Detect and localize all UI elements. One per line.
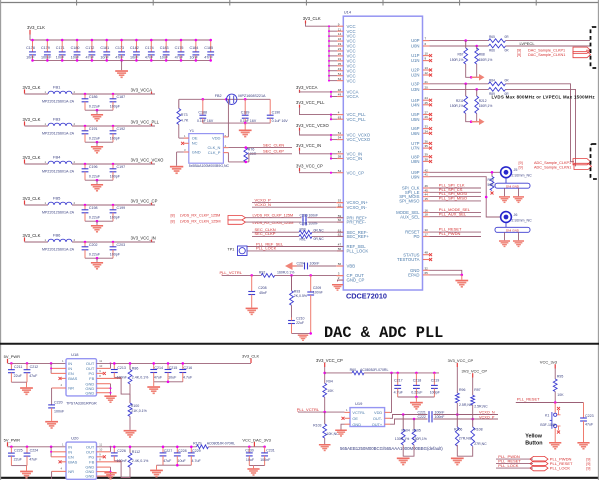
wire bbox=[157, 464, 192, 466]
capacitor C210 22uF bbox=[288, 317, 304, 334]
ground bbox=[26, 382, 28, 387]
pin STATUS 48 bbox=[403, 251, 432, 258]
resistor R129 AC0805JR-070RL bbox=[193, 442, 235, 449]
offpage connector bbox=[573, 47, 591, 53]
svg-text:[9]: [9] bbox=[586, 467, 590, 471]
svg-text:SEC_CLKP: SEC_CLKP bbox=[255, 231, 276, 236]
pin VCC 43 bbox=[328, 67, 356, 74]
wire output rail bbox=[97, 362, 252, 364]
resistor R95 10K bbox=[553, 375, 564, 398]
svg-text:BIAS: BIAS bbox=[68, 376, 77, 381]
wire bbox=[466, 64, 477, 77]
wire bbox=[341, 424, 345, 429]
capacitor C211 22uF bbox=[8, 363, 23, 382]
wire bbox=[456, 367, 458, 393]
svg-text:U3P: U3P bbox=[411, 81, 419, 86]
capacitor C227 47uF bbox=[160, 446, 173, 466]
wire bbox=[25, 163, 49, 165]
capacitor C196 0.22uF bbox=[82, 164, 101, 180]
svg-text:C182: C182 bbox=[130, 46, 139, 50]
capacitor C175 47nF bbox=[175, 39, 185, 62]
wire bbox=[430, 216, 482, 218]
svg-text:R68: R68 bbox=[479, 52, 485, 56]
resistor R66 0R bbox=[489, 44, 510, 52]
pin U8N 38 bbox=[411, 157, 432, 164]
svg-text:C175: C175 bbox=[175, 46, 184, 50]
svg-text:64: 64 bbox=[338, 77, 342, 81]
svg-text:FB3: FB3 bbox=[53, 117, 61, 122]
svg-text:VCXO_N: VCXO_N bbox=[479, 411, 495, 415]
capacitor C174 47nF bbox=[145, 39, 155, 62]
pin VCC 11 bbox=[328, 27, 356, 34]
svg-text:100pF: 100pF bbox=[110, 215, 121, 219]
pin PG bbox=[97, 372, 104, 374]
svg-text:36: 36 bbox=[425, 139, 429, 143]
svg-text:PLL_LOCK: PLL_LOCK bbox=[498, 463, 519, 468]
wire bbox=[179, 98, 270, 100]
svg-text:100pF: 100pF bbox=[430, 391, 441, 395]
connector J2 (DAC clock) bbox=[591, 27, 599, 68]
ground bbox=[121, 60, 123, 70]
svg-text:ADC_Sample_CLKN1: ADC_Sample_CLKN1 bbox=[534, 166, 571, 170]
capacitor C197 100pF bbox=[110, 164, 125, 180]
capacitor C192 100pF bbox=[110, 126, 125, 142]
wire bbox=[129, 416, 131, 430]
svg-text:C211: C211 bbox=[14, 365, 22, 369]
svg-text:54: 54 bbox=[338, 169, 342, 173]
pin VCC 14 bbox=[328, 32, 356, 39]
svg-text:0.22uF: 0.22uF bbox=[89, 215, 101, 219]
svg-text:100nF: 100nF bbox=[54, 409, 65, 413]
svg-text:R65: R65 bbox=[489, 35, 495, 39]
svg-text:21K,0.1%: 21K,0.1% bbox=[131, 409, 147, 413]
svg-text:4.7K: 4.7K bbox=[181, 119, 189, 123]
svg-text:R60: R60 bbox=[350, 368, 356, 372]
svg-text:47nF: 47nF bbox=[115, 56, 124, 60]
wire bbox=[300, 131, 332, 140]
svg-text:3V3_CLK: 3V3_CLK bbox=[23, 196, 41, 201]
pin PRI_REF+ 59 bbox=[337, 214, 368, 221]
svg-text:10uF: 10uF bbox=[246, 458, 255, 462]
resistor R94 10K bbox=[323, 379, 334, 397]
pin U9N 41 bbox=[411, 173, 430, 180]
svg-text:[8]: [8] bbox=[171, 214, 175, 218]
wire bbox=[312, 231, 343, 233]
svg-text:EPAD: EPAD bbox=[408, 273, 419, 278]
wire bbox=[430, 187, 482, 189]
svg-text:J6: J6 bbox=[514, 213, 518, 217]
svg-text:160R,0.1%: 160R,0.1% bbox=[277, 270, 294, 274]
svg-text:[9]: [9] bbox=[517, 53, 521, 57]
resistor R76 100R bbox=[244, 146, 257, 163]
svg-text:C203: C203 bbox=[117, 243, 126, 247]
wire bbox=[496, 467, 533, 469]
wire bbox=[325, 372, 352, 374]
svg-text:47nF: 47nF bbox=[86, 56, 95, 60]
resistor R103 10K,NC bbox=[313, 412, 339, 438]
svg-text:GND: GND bbox=[85, 390, 94, 395]
pin VCC 54 bbox=[328, 72, 356, 79]
svg-text:TPS7A3301RPGR: TPS7A3301RPGR bbox=[66, 402, 97, 406]
wire bbox=[300, 108, 332, 119]
resistor R67 150R,1% bbox=[450, 41, 468, 64]
svg-text:U18: U18 bbox=[71, 352, 79, 357]
svg-text:C229: C229 bbox=[192, 449, 201, 453]
svg-text:10K: 10K bbox=[557, 393, 564, 397]
ground bbox=[549, 442, 561, 450]
pin U1N 9 bbox=[411, 57, 432, 64]
svg-text:FB: FB bbox=[89, 376, 94, 381]
svg-text:130R,1%: 130R,1% bbox=[413, 437, 427, 441]
wire bbox=[312, 235, 343, 237]
sheet border right bbox=[597, 0, 599, 480]
wire bbox=[114, 376, 121, 378]
svg-text:VCCA: VCCA bbox=[347, 94, 359, 99]
oscillator Y1 5x5BAA100M000B9G bbox=[181, 129, 229, 168]
svg-text:GND: GND bbox=[85, 474, 94, 479]
wire bbox=[97, 466, 111, 468]
svg-text:R67: R67 bbox=[457, 52, 463, 56]
svg-text:OUT-: OUT- bbox=[373, 416, 383, 421]
wire bbox=[85, 257, 113, 259]
ground bbox=[415, 397, 417, 402]
capacitor C200 100nF bbox=[300, 213, 319, 221]
ground bbox=[577, 442, 589, 450]
svg-text:C171: C171 bbox=[56, 46, 65, 50]
resistor R65 0R bbox=[489, 35, 510, 42]
ground bbox=[518, 188, 520, 196]
svg-text:3V3_VCC_PLL: 3V3_VCC_PLL bbox=[296, 100, 325, 105]
wire bbox=[72, 125, 155, 127]
svg-text:23: 23 bbox=[338, 47, 342, 51]
pin U0N 6 bbox=[411, 42, 430, 49]
svg-text:R108: R108 bbox=[474, 427, 482, 431]
svg-text:R92: R92 bbox=[259, 270, 265, 274]
wire bbox=[324, 438, 326, 444]
svg-text:32: 32 bbox=[425, 266, 429, 270]
svg-text:42: 42 bbox=[425, 168, 429, 172]
svg-text:130R,1%: 130R,1% bbox=[395, 437, 409, 441]
svg-text:49: 49 bbox=[338, 93, 342, 97]
ground bbox=[319, 444, 331, 451]
wire bbox=[430, 196, 482, 198]
wire U9N to J6 bbox=[430, 177, 501, 217]
svg-text:C191: C191 bbox=[89, 127, 98, 131]
ground bbox=[518, 232, 520, 240]
ground bbox=[45, 421, 58, 429]
svg-text:C188: C188 bbox=[198, 111, 207, 115]
svg-text:10nF: 10nF bbox=[71, 56, 80, 60]
svg-text:100nF: 100nF bbox=[313, 291, 323, 295]
svg-text:LVDS_RX_CLKP_125M: LVDS_RX_CLKP_125M bbox=[180, 214, 221, 218]
svg-text:U20: U20 bbox=[71, 436, 79, 441]
capacitor C173 47nF bbox=[115, 39, 125, 62]
svg-text:GND: GND bbox=[352, 422, 361, 427]
ferrite bead FB2 MPZ1608S221A bbox=[215, 94, 266, 105]
capacitor C202 0.22uF bbox=[82, 242, 101, 258]
svg-text:14: 14 bbox=[338, 32, 342, 36]
svg-text:FB1: FB1 bbox=[53, 85, 61, 90]
svg-text:C185: C185 bbox=[204, 46, 213, 50]
pin U4N 25 bbox=[411, 101, 432, 108]
svg-text:PLL_LOCK: PLL_LOCK bbox=[256, 246, 277, 251]
svg-text:60: 60 bbox=[338, 218, 342, 222]
svg-text:C220: C220 bbox=[54, 400, 63, 404]
svg-text:FB6: FB6 bbox=[53, 233, 61, 238]
wire bbox=[300, 92, 332, 97]
svg-text:VCXO_P: VCXO_P bbox=[479, 415, 495, 419]
svg-text:C190: C190 bbox=[272, 111, 281, 115]
ferrite bead FB3 MPZ2012S601A-2A bbox=[42, 117, 76, 136]
wire bbox=[554, 369, 556, 380]
svg-text:0R: 0R bbox=[505, 48, 510, 52]
svg-text:NR: NR bbox=[68, 469, 74, 474]
svg-text:R66: R66 bbox=[489, 48, 495, 52]
wire bbox=[472, 405, 474, 419]
pin U3N 20 bbox=[411, 85, 430, 92]
pin AUX_SEL 18 bbox=[400, 213, 429, 220]
wire bbox=[72, 93, 155, 95]
svg-text:100nF: 100nF bbox=[435, 410, 445, 414]
pin 57 bbox=[330, 150, 343, 155]
pin BIAS NC bbox=[61, 377, 66, 379]
ground bbox=[96, 180, 98, 184]
svg-text:10nF: 10nF bbox=[130, 56, 139, 60]
svg-text:AC0805JR-070RL: AC0805JR-070RL bbox=[360, 368, 388, 372]
svg-text:PLL_PWDN: PLL_PWDN bbox=[439, 231, 461, 236]
svg-text:C230: C230 bbox=[245, 448, 254, 452]
svg-text:150R,1%: 150R,1% bbox=[450, 104, 464, 108]
wire bbox=[227, 99, 229, 137]
wire bbox=[472, 378, 474, 396]
wire bbox=[227, 153, 229, 162]
svg-text:30: 30 bbox=[425, 228, 429, 232]
resistor R112 2.4K,0.1% bbox=[128, 446, 149, 468]
svg-text:U9N: U9N bbox=[411, 174, 420, 179]
svg-text:C222: C222 bbox=[418, 415, 426, 419]
VCXO U19 565AEB1250M00BCG bbox=[342, 401, 391, 427]
pin VCC 35 bbox=[328, 62, 356, 69]
svg-text:10uF: 10uF bbox=[168, 375, 177, 379]
ground bbox=[124, 430, 137, 438]
wire bbox=[25, 241, 49, 243]
svg-text:47uF: 47uF bbox=[29, 458, 38, 462]
svg-text:27R,NC: 27R,NC bbox=[474, 442, 487, 446]
ground bbox=[156, 465, 158, 469]
svg-text:R79: R79 bbox=[488, 178, 494, 182]
svg-text:[9]: [9] bbox=[517, 48, 521, 52]
pin U7N 35 bbox=[411, 144, 432, 151]
offpage connector bbox=[530, 461, 548, 466]
svg-text:VCC: VCC bbox=[347, 78, 356, 83]
wire bbox=[300, 151, 332, 159]
capacitor C183 10nF bbox=[160, 39, 170, 62]
connector J5 2.92mm_NC bbox=[501, 167, 532, 183]
svg-text:VCC_IN: VCC_IN bbox=[347, 156, 363, 161]
wire bbox=[300, 171, 332, 173]
capacitor C220 100nF bbox=[48, 388, 65, 421]
pin U9P 42 bbox=[411, 168, 429, 175]
svg-text:48: 48 bbox=[338, 88, 342, 92]
svg-text:MPZ2012S601A-2A: MPZ2012S601A-2A bbox=[42, 170, 75, 174]
pin U4P 24 bbox=[411, 96, 432, 103]
wire bbox=[228, 147, 249, 149]
svg-text:3V3_VCCA: 3V3_VCCA bbox=[296, 85, 318, 90]
resistor R92 160R,0.1% bbox=[259, 270, 294, 277]
svg-text:C219: C219 bbox=[431, 379, 440, 383]
wire bbox=[309, 265, 336, 267]
svg-text:Button: Button bbox=[525, 440, 542, 446]
svg-text:3V3_VCC_VCXO: 3V3_VCC_VCXO bbox=[296, 123, 330, 128]
svg-text:J5: J5 bbox=[514, 168, 518, 172]
wire bbox=[246, 217, 302, 219]
svg-text:C213: C213 bbox=[117, 366, 126, 370]
svg-text:10nF: 10nF bbox=[26, 56, 35, 60]
svg-text:39: 39 bbox=[425, 153, 429, 157]
svg-text:PLL_SPI_MISO: PLL_SPI_MISO bbox=[439, 196, 467, 201]
pin 54 bbox=[330, 169, 343, 174]
pin SPI_MOIS 44 bbox=[399, 193, 429, 200]
pin SPI_MISO 15 bbox=[399, 197, 429, 204]
wire bbox=[121, 377, 130, 394]
wire bbox=[364, 372, 439, 374]
capacitor C221 100nF bbox=[418, 410, 445, 418]
svg-text:FB2: FB2 bbox=[215, 94, 222, 98]
svg-text:48: 48 bbox=[425, 251, 429, 255]
svg-text:10: 10 bbox=[99, 448, 102, 452]
resistor R60 AC0805JR-070RL bbox=[352, 371, 364, 375]
wire bbox=[398, 396, 435, 398]
svg-text:U14: U14 bbox=[344, 10, 352, 15]
svg-text:TP1: TP1 bbox=[227, 247, 234, 251]
svg-text:47: 47 bbox=[338, 243, 342, 247]
wire bbox=[292, 332, 311, 334]
capacitor C209 100nF bbox=[307, 275, 323, 333]
svg-text:U4N: U4N bbox=[411, 102, 420, 107]
svg-text:PLL_RESET: PLL_RESET bbox=[517, 396, 540, 401]
svg-text:3V3_CLK: 3V3_CLK bbox=[23, 233, 41, 238]
resistor R84 0R bbox=[489, 78, 510, 85]
resistor R105 130R,1% bbox=[412, 419, 427, 445]
svg-text:R90: R90 bbox=[300, 228, 306, 232]
resistor R79 50R,NC bbox=[488, 171, 500, 195]
wire bbox=[121, 461, 130, 478]
svg-text:0.1uF 16V: 0.1uF 16V bbox=[197, 119, 214, 123]
DNI note box bbox=[495, 183, 530, 188]
pin U5N 26 bbox=[411, 115, 432, 122]
svg-text:R212: R212 bbox=[479, 99, 487, 103]
svg-text:C214: C214 bbox=[154, 366, 163, 370]
svg-text:4.7uF: 4.7uF bbox=[394, 391, 404, 395]
svg-text:DAC & ADC PLL: DAC & ADC PLL bbox=[324, 324, 443, 342]
pin REF_SEL 47 bbox=[337, 243, 366, 250]
svg-text:VDD: VDD bbox=[374, 410, 382, 415]
svg-text:24: 24 bbox=[425, 96, 429, 100]
capacitor C191 0.22uF bbox=[82, 126, 101, 142]
svg-text:GND_CP: GND_CP bbox=[347, 278, 365, 283]
pushbutton K1 B3F-1042 bbox=[540, 403, 560, 443]
capacitor C198 0.22uF bbox=[82, 205, 101, 221]
ground bbox=[335, 430, 347, 437]
capacitor C201 100nF bbox=[300, 219, 319, 226]
svg-text:0R: 0R bbox=[505, 78, 510, 82]
power arrow VBB bbox=[471, 76, 479, 78]
svg-text:47uF: 47uF bbox=[585, 423, 594, 427]
wire bbox=[33, 59, 211, 61]
svg-text:FB5: FB5 bbox=[53, 196, 61, 201]
svg-text:R100: R100 bbox=[131, 404, 140, 408]
svg-text:R106: R106 bbox=[454, 427, 462, 431]
ferrite bead FB6 MPZ2012S601A-2A bbox=[42, 233, 76, 252]
capacitor C222 100nF bbox=[418, 415, 445, 423]
pin 58 bbox=[330, 155, 343, 160]
capacitor C188 0.1uF 16V bbox=[197, 99, 214, 123]
resistor R104 130R,1% bbox=[395, 415, 410, 445]
resistor R97 2.5R,NC bbox=[471, 388, 488, 409]
svg-text:20: 20 bbox=[425, 85, 429, 89]
sheet border left bbox=[0, 0, 2, 480]
svg-text:16: 16 bbox=[338, 37, 342, 41]
svg-text:3V3_CLK: 3V3_CLK bbox=[242, 354, 259, 359]
svg-text:25: 25 bbox=[425, 101, 429, 105]
capacitor C223 47uF bbox=[580, 403, 594, 443]
svg-text:57: 57 bbox=[338, 150, 342, 154]
wire bbox=[252, 202, 336, 204]
wire bbox=[25, 93, 49, 95]
svg-text:PLL_LOCK: PLL_LOCK bbox=[347, 249, 369, 254]
svg-text:LVPECL: LVPECL bbox=[520, 41, 536, 46]
svg-text:C187: C187 bbox=[117, 95, 126, 99]
ferrite bead FB1 MPZ2012S601A-2A bbox=[42, 85, 76, 104]
offpage connector bbox=[573, 159, 591, 165]
wire bbox=[29, 35, 31, 41]
svg-text:C224: C224 bbox=[30, 449, 39, 453]
wire bbox=[25, 125, 49, 127]
capacitor C204 100nF bbox=[297, 261, 320, 269]
wire bbox=[72, 163, 155, 165]
svg-text:U0P: U0P bbox=[411, 38, 419, 43]
svg-text:U1N: U1N bbox=[411, 58, 420, 63]
wire bbox=[430, 236, 482, 238]
svg-text:3V3_VCC_IN: 3V3_VCC_IN bbox=[296, 143, 321, 148]
svg-text:U5N: U5N bbox=[411, 117, 420, 122]
wire bbox=[434, 414, 499, 416]
DNI note box bbox=[495, 227, 530, 232]
pin TESTOUTA 49 bbox=[397, 257, 432, 262]
svg-text:R97: R97 bbox=[474, 388, 480, 392]
svg-text:U0N: U0N bbox=[411, 44, 420, 49]
svg-text:35: 35 bbox=[338, 62, 342, 66]
svg-text:R95: R95 bbox=[557, 375, 563, 379]
wire bbox=[85, 141, 113, 143]
ground bbox=[170, 166, 183, 174]
wire bbox=[430, 200, 482, 202]
svg-text:VCTRL: VCTRL bbox=[352, 410, 366, 415]
svg-text:BIAS: BIAS bbox=[68, 459, 77, 464]
svg-text:2.4K,0.1%: 2.4K,0.1% bbox=[132, 375, 149, 379]
capacitor C171 10nF bbox=[56, 39, 66, 62]
pin U2P 13 bbox=[411, 66, 432, 73]
wire bbox=[97, 367, 111, 369]
svg-text:C174: C174 bbox=[145, 46, 154, 50]
offpage connector bbox=[574, 163, 592, 169]
capacitor C214 47uF bbox=[150, 362, 163, 382]
wire bbox=[496, 463, 533, 465]
svg-text:PLL_VCTRL: PLL_VCTRL bbox=[297, 407, 320, 412]
wire bbox=[506, 89, 576, 166]
svg-text:CDCE72010: CDCE72010 bbox=[346, 292, 387, 301]
wire bbox=[246, 250, 343, 252]
